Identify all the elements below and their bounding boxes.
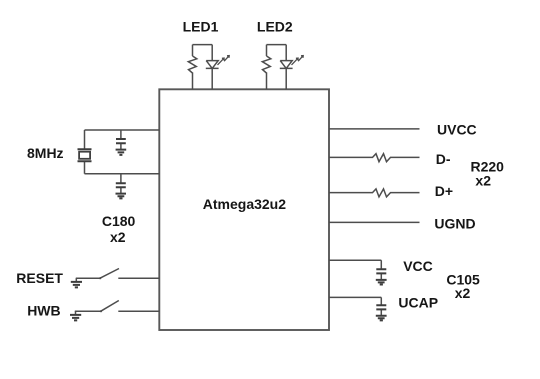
svg-text:UVCC: UVCC (437, 121, 477, 137)
svg-text:LED2: LED2 (257, 18, 293, 34)
svg-text:Atmega32u2: Atmega32u2 (203, 196, 286, 212)
svg-text:D+: D+ (435, 183, 453, 199)
svg-text:UCAP: UCAP (398, 295, 438, 311)
svg-text:x2: x2 (110, 229, 126, 245)
svg-text:RESET: RESET (16, 270, 63, 286)
svg-text:HWB: HWB (27, 303, 60, 319)
svg-text:VCC: VCC (403, 258, 433, 274)
svg-text:C180: C180 (102, 213, 136, 229)
svg-text:x2: x2 (475, 172, 491, 188)
svg-text:LED1: LED1 (183, 18, 219, 34)
svg-text:8MHz: 8MHz (27, 145, 64, 161)
svg-text:UGND: UGND (434, 216, 475, 232)
svg-text:x2: x2 (455, 285, 471, 301)
svg-text:D-: D- (436, 151, 451, 167)
